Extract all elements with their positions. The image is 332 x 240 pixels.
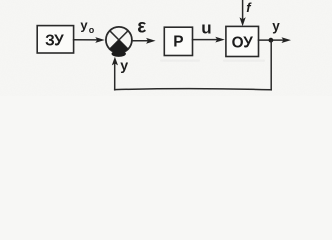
svg-text:у: у: [272, 19, 280, 34]
wire ZU to summer: [74, 39, 98, 41]
svg-text:у: у: [120, 58, 128, 74]
wire output y: [259, 39, 284, 41]
svg-text:ОУ: ОУ: [232, 34, 254, 51]
wire feedback left vertical: [114, 63, 116, 90]
wire P to OU: [193, 39, 217, 41]
arrowhead of epsilon wire: [146, 38, 156, 44]
summing junction diagonal NW-SE: [110, 31, 128, 49]
summing junction circle: [106, 27, 132, 53]
arrowhead into OU: [215, 37, 225, 43]
summing junction filled bottom sector: [110, 40, 128, 53]
svg-text:ЗУ: ЗУ: [45, 32, 64, 49]
svg-text:у: у: [80, 17, 88, 32]
wire feedback bottom horizontal: [115, 89, 272, 90]
svg-text:u: u: [201, 19, 211, 38]
block OU (controlled object): [226, 26, 259, 56]
block ZU (setpoint device): [37, 26, 73, 53]
wire feedback right vertical: [270, 41, 272, 90]
svg-text:Р: Р: [173, 33, 183, 50]
arrowhead feedback into summer: [112, 57, 118, 66]
node junction dot on output: [269, 38, 274, 43]
arrowhead of f into OU: [240, 17, 246, 26]
scan smudge under P block: [160, 60, 200, 62]
arrowhead into summer: [95, 37, 105, 43]
svg-text:о: о: [89, 25, 95, 35]
wire summer to P: [132, 40, 148, 42]
svg-text:ε: ε: [137, 16, 146, 37]
block P (regulator): [164, 27, 192, 55]
summing junction diagonal NE-SW: [110, 31, 128, 49]
summing junction ink bleed below: [112, 51, 126, 57]
arrowhead output: [282, 37, 292, 43]
scan smudge under OU block: [223, 60, 265, 62]
wire f disturbance input: [242, 0, 244, 20]
